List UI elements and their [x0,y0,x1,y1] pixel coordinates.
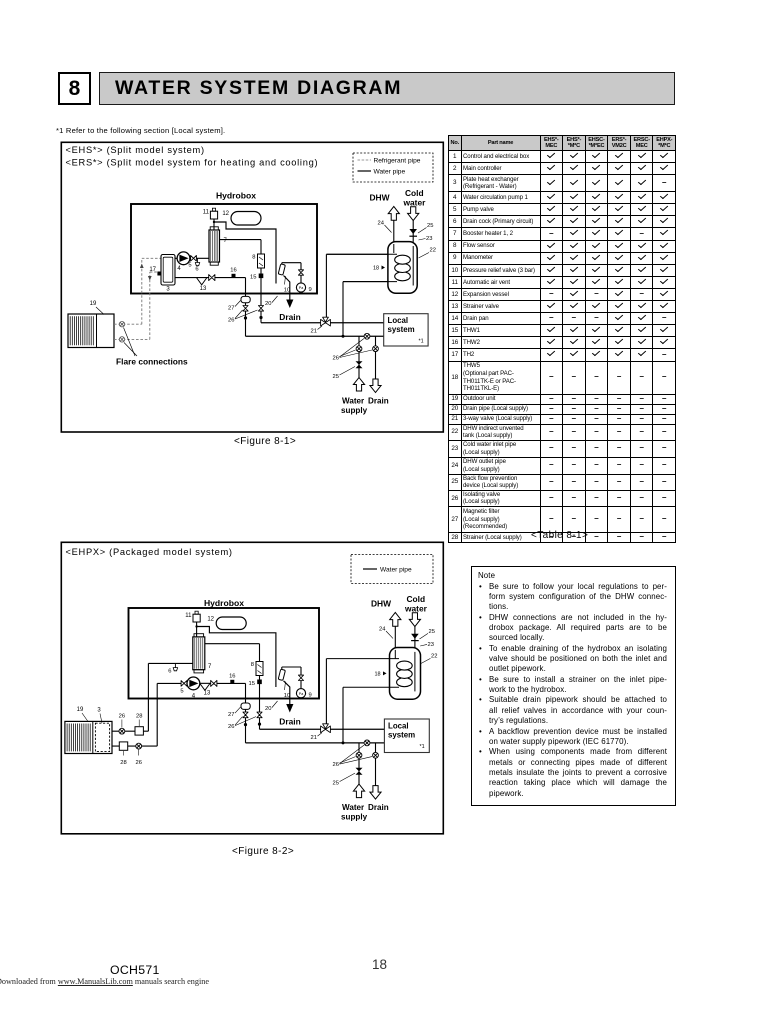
svg-text:6: 6 [168,669,171,675]
svg-text:19: 19 [77,707,84,713]
svg-text:16: 16 [230,268,236,274]
svg-text:28: 28 [136,714,142,720]
svg-text:water: water [403,198,427,208]
svg-text:22: 22 [431,653,437,659]
svg-text:6: 6 [195,267,198,273]
svg-text:Water pipe: Water pipe [380,567,412,574]
svg-text:24: 24 [379,626,386,632]
svg-text:26: 26 [119,714,125,720]
svg-text:11: 11 [203,210,210,216]
svg-text:24: 24 [378,221,385,227]
svg-text:Local: Local [388,722,409,731]
svg-text:Refrigerant pipe: Refrigerant pipe [374,158,421,165]
svg-text:*1: *1 [419,339,424,345]
svg-text:20: 20 [265,706,271,712]
svg-text:Hydrobox: Hydrobox [216,191,256,201]
svg-text:12: 12 [207,617,214,623]
svg-text:<EHPX> (Packaged model system): <EHPX> (Packaged model system) [66,547,233,557]
svg-text:Pa: Pa [299,692,303,696]
svg-text:Drain: Drain [368,397,389,406]
svg-text:water: water [404,604,428,614]
svg-text:11: 11 [185,613,192,619]
svg-text:15: 15 [249,681,255,687]
svg-text:5: 5 [188,263,191,269]
svg-text:3: 3 [166,287,170,293]
svg-text:18: 18 [375,671,381,677]
svg-text:21: 21 [311,329,317,335]
svg-text:Cold: Cold [407,594,426,604]
svg-text:20: 20 [265,301,271,307]
svg-text:18: 18 [373,266,379,272]
svg-text:9: 9 [309,287,312,293]
svg-text:<EHS*> (Split model system): <EHS*> (Split model system) [66,145,205,155]
svg-text:supply: supply [341,813,368,822]
svg-text:8: 8 [252,255,255,261]
svg-text:Drain: Drain [368,803,389,812]
svg-text:3: 3 [97,708,101,714]
svg-text:26: 26 [228,724,234,730]
svg-text:9: 9 [309,693,312,699]
svg-text:25: 25 [427,223,433,229]
svg-text:26: 26 [135,760,141,766]
svg-text:system: system [388,731,415,740]
svg-text:Drain: Drain [279,312,300,322]
svg-text:DHW: DHW [371,599,391,609]
svg-text:*1: *1 [420,744,425,750]
svg-text:DHW: DHW [370,193,390,203]
svg-text:Local: Local [388,316,409,325]
svg-text:26: 26 [333,762,339,768]
svg-text:13: 13 [204,691,211,697]
svg-text:17: 17 [149,267,156,273]
svg-text:21: 21 [311,735,317,741]
svg-text:27: 27 [228,712,234,718]
svg-text:7: 7 [224,238,228,244]
svg-text:Hydrobox: Hydrobox [204,598,244,608]
svg-text:Drain: Drain [279,717,300,727]
svg-text:Water pipe: Water pipe [374,169,406,176]
svg-text:28: 28 [120,760,126,766]
svg-text:23: 23 [426,236,432,242]
svg-text:7: 7 [208,664,212,670]
svg-text:Water: Water [342,397,365,406]
svg-text:23: 23 [428,642,434,648]
svg-text:16: 16 [229,674,235,680]
svg-text:Pa: Pa [299,286,303,290]
svg-text:19: 19 [90,301,97,307]
svg-text:12: 12 [222,211,229,217]
svg-text:25: 25 [333,374,339,380]
svg-text:15: 15 [250,275,256,281]
svg-text:26: 26 [228,318,234,324]
svg-text:13: 13 [200,286,207,292]
svg-text:<ERS*> (Split model system for: <ERS*> (Split model system for heating a… [66,157,319,167]
svg-text:5: 5 [180,689,183,695]
svg-text:system: system [388,325,415,334]
svg-text:25: 25 [429,629,435,635]
svg-text:4: 4 [177,266,181,272]
svg-text:Flare connections: Flare connections [116,357,188,367]
svg-text:22: 22 [430,248,436,254]
svg-text:Water: Water [342,803,365,812]
svg-text:27: 27 [228,306,234,312]
svg-text:8: 8 [251,662,254,668]
svg-text:supply: supply [341,406,368,415]
svg-text:26: 26 [333,356,339,362]
svg-text:25: 25 [333,781,339,787]
svg-text:Cold: Cold [405,188,424,198]
